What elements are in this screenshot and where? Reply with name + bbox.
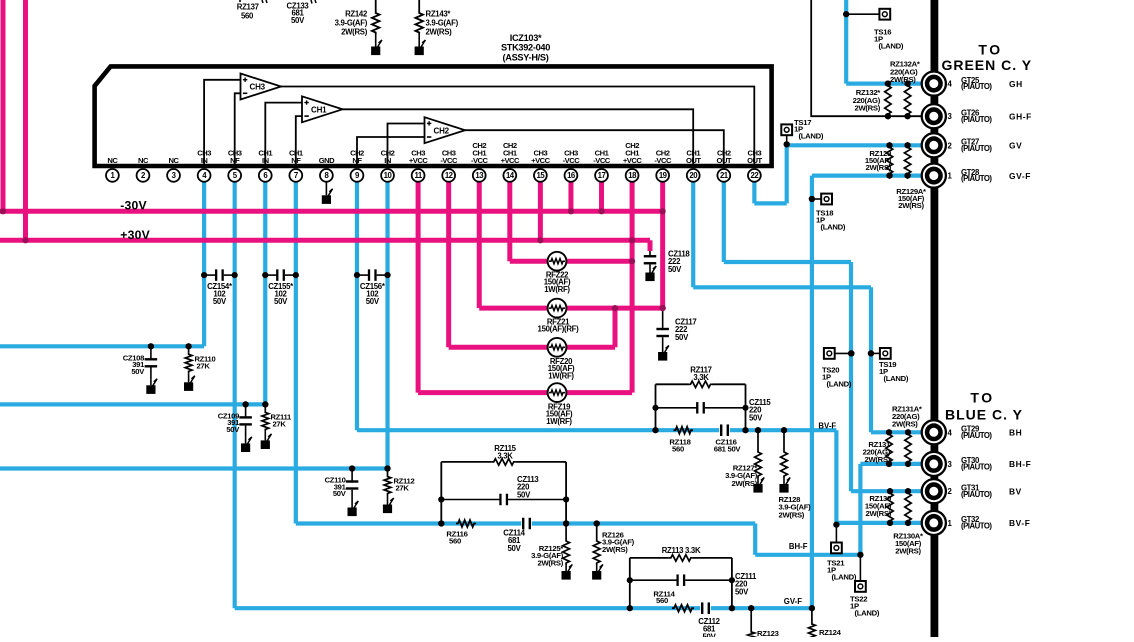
svg-text:27K: 27K: [197, 361, 211, 370]
svg-text:2W(RS): 2W(RS): [865, 163, 891, 172]
svg-text:RZ142: RZ142: [345, 10, 368, 19]
svg-text:RZ137: RZ137: [237, 3, 259, 12]
svg-text:50V: 50V: [291, 16, 305, 25]
svg-text:50V: 50V: [749, 413, 763, 422]
svg-text:3.3K: 3.3K: [497, 452, 513, 461]
svg-text:27K: 27K: [396, 484, 410, 493]
svg-text:18: 18: [628, 171, 637, 180]
svg-text:50V: 50V: [703, 632, 717, 637]
svg-text:7: 7: [294, 171, 298, 180]
svg-text:NF: NF: [352, 156, 362, 165]
svg-text:(LAND): (LAND): [827, 379, 852, 388]
svg-text:2W(RS): 2W(RS): [898, 201, 924, 210]
svg-text:13: 13: [475, 171, 484, 180]
svg-text:-VCC: -VCC: [593, 156, 611, 165]
svg-text:2W(RS): 2W(RS): [854, 104, 880, 113]
svg-text:1: 1: [948, 519, 953, 528]
svg-text:2W(RS): 2W(RS): [865, 509, 891, 518]
svg-text:2W(RS): 2W(RS): [426, 28, 453, 37]
svg-text:4: 4: [948, 80, 953, 89]
svg-text:GND: GND: [319, 156, 335, 165]
svg-text:2: 2: [948, 487, 953, 496]
svg-text:2W(RS): 2W(RS): [602, 545, 628, 554]
svg-text:50V: 50V: [366, 297, 380, 306]
svg-text:15: 15: [537, 171, 546, 180]
svg-text:12: 12: [445, 171, 454, 180]
svg-text:NF: NF: [230, 156, 240, 165]
svg-text:TO: TO: [970, 390, 994, 406]
svg-text:CH1: CH1: [311, 106, 327, 115]
svg-text:(ASSY-H/S): (ASSY-H/S): [502, 52, 548, 62]
svg-text:1W(RF): 1W(RF): [548, 371, 574, 380]
svg-text:GREEN C. Y: GREEN C. Y: [941, 57, 1032, 73]
svg-text:50V: 50V: [226, 425, 240, 434]
svg-text:2W(RS): 2W(RS): [892, 419, 918, 428]
svg-text:(LAND): (LAND): [855, 608, 880, 617]
svg-text:BH-F: BH-F: [1009, 459, 1031, 469]
svg-text:16: 16: [567, 171, 576, 180]
svg-text:GH-F: GH-F: [1009, 111, 1032, 121]
svg-text:2: 2: [948, 141, 953, 150]
svg-text:1W(RF): 1W(RF): [544, 285, 570, 294]
svg-text:2W(RS): 2W(RS): [779, 510, 805, 519]
svg-text:-VCC: -VCC: [440, 156, 458, 165]
svg-text:RZ123: RZ123: [757, 629, 779, 637]
svg-text:(PIAUTO): (PIAUTO): [961, 82, 992, 91]
svg-text:3.9-G(AF): 3.9-G(AF): [426, 19, 459, 28]
svg-text:11: 11: [414, 171, 422, 180]
svg-text:3: 3: [948, 112, 953, 121]
svg-text:3: 3: [948, 460, 953, 469]
svg-text:CH2: CH2: [434, 126, 450, 135]
svg-text:OUT: OUT: [717, 156, 732, 165]
svg-text:(LAND): (LAND): [799, 132, 824, 141]
svg-text:BV: BV: [1009, 486, 1022, 496]
svg-text:22: 22: [751, 171, 760, 180]
svg-text:+VCC: +VCC: [501, 156, 520, 165]
svg-text:GV-F: GV-F: [1009, 171, 1031, 181]
svg-text:IN: IN: [262, 156, 269, 165]
svg-text:BH-F: BH-F: [789, 542, 808, 551]
svg-text:IN: IN: [384, 156, 391, 165]
svg-text:GH: GH: [1009, 79, 1023, 89]
svg-text:681 50V: 681 50V: [714, 445, 742, 454]
svg-text:+30V: +30V: [120, 228, 150, 242]
svg-text:17: 17: [598, 171, 606, 180]
svg-text:(PIAUTO): (PIAUTO): [961, 522, 992, 531]
svg-text:560: 560: [656, 596, 668, 605]
svg-text:(PIAUTO): (PIAUTO): [961, 174, 992, 183]
svg-text:1: 1: [948, 172, 953, 181]
svg-text:50V: 50V: [668, 265, 682, 274]
svg-text:STK392-040: STK392-040: [501, 43, 550, 53]
svg-text:150(AF)(RF): 150(AF)(RF): [538, 325, 580, 334]
svg-text:2W(RS): 2W(RS): [341, 28, 368, 37]
svg-text:-VCC: -VCC: [563, 156, 581, 165]
svg-text:CH3: CH3: [250, 83, 266, 92]
svg-text:(LAND): (LAND): [884, 374, 909, 383]
svg-text:50V: 50V: [333, 489, 347, 498]
svg-text:(PIAUTO): (PIAUTO): [961, 463, 992, 472]
svg-text:OUT: OUT: [747, 156, 762, 165]
svg-text:50V: 50V: [517, 490, 531, 499]
svg-text:RZ113 3.3K: RZ113 3.3K: [662, 546, 701, 555]
svg-text:BV-F: BV-F: [818, 422, 836, 431]
svg-text:(PIAUTO): (PIAUTO): [961, 431, 992, 440]
svg-text:NC: NC: [138, 156, 149, 165]
svg-text:ICZ103*: ICZ103*: [510, 33, 542, 43]
svg-text:-VCC: -VCC: [471, 156, 489, 165]
svg-text:10: 10: [384, 171, 393, 180]
svg-text:2W(RS): 2W(RS): [890, 75, 916, 84]
svg-text:RZ143*: RZ143*: [426, 10, 452, 19]
svg-text:+VCC: +VCC: [623, 156, 642, 165]
svg-text:+VCC: +VCC: [409, 156, 428, 165]
svg-text:BH: BH: [1009, 428, 1022, 438]
svg-text:50V: 50V: [735, 587, 749, 596]
svg-text:(PIAUTO): (PIAUTO): [961, 144, 992, 153]
svg-text:3.9-G(AF): 3.9-G(AF): [335, 19, 368, 28]
svg-text:-VCC: -VCC: [654, 156, 672, 165]
svg-text:50V: 50V: [675, 333, 689, 342]
svg-text:NC: NC: [169, 156, 180, 165]
svg-text:TO: TO: [978, 42, 1002, 58]
svg-text:(LAND): (LAND): [832, 572, 857, 581]
svg-text:50V: 50V: [508, 544, 522, 553]
svg-text:50V: 50V: [213, 297, 227, 306]
svg-text:OUT: OUT: [686, 156, 701, 165]
svg-text:2W(RS): 2W(RS): [537, 558, 563, 567]
svg-text:(LAND): (LAND): [879, 41, 904, 50]
svg-text:50V: 50V: [274, 297, 288, 306]
svg-text:560: 560: [672, 445, 684, 454]
svg-text:27K: 27K: [273, 419, 287, 428]
svg-text:NF: NF: [291, 156, 301, 165]
svg-text:1W(RF): 1W(RF): [546, 417, 572, 426]
svg-text:50V: 50V: [131, 367, 145, 376]
svg-text:NC: NC: [107, 156, 118, 165]
svg-text:2W(RS): 2W(RS): [731, 479, 757, 488]
svg-text:-30V: -30V: [120, 199, 147, 213]
svg-text:19: 19: [659, 171, 668, 180]
svg-text:(PIAUTO): (PIAUTO): [961, 115, 992, 124]
svg-text:20: 20: [689, 171, 698, 180]
svg-text:GV-F: GV-F: [784, 597, 802, 606]
svg-text:RZ124: RZ124: [819, 628, 842, 637]
svg-text:4: 4: [948, 428, 953, 437]
svg-text:GV: GV: [1009, 141, 1022, 151]
svg-text:560: 560: [241, 12, 254, 21]
svg-text:+VCC: +VCC: [531, 156, 550, 165]
svg-text:BLUE C. Y: BLUE C. Y: [945, 406, 1023, 422]
svg-text:(LAND): (LAND): [821, 222, 846, 231]
svg-text:21: 21: [720, 171, 729, 180]
svg-text:14: 14: [506, 171, 515, 180]
svg-text:(PIAUTO): (PIAUTO): [961, 490, 992, 499]
svg-text:IN: IN: [201, 156, 208, 165]
svg-text:3.3K: 3.3K: [693, 373, 709, 382]
svg-text:BV-F: BV-F: [1009, 518, 1030, 528]
svg-text:2W(RS): 2W(RS): [895, 546, 921, 555]
svg-text:560: 560: [449, 537, 461, 546]
